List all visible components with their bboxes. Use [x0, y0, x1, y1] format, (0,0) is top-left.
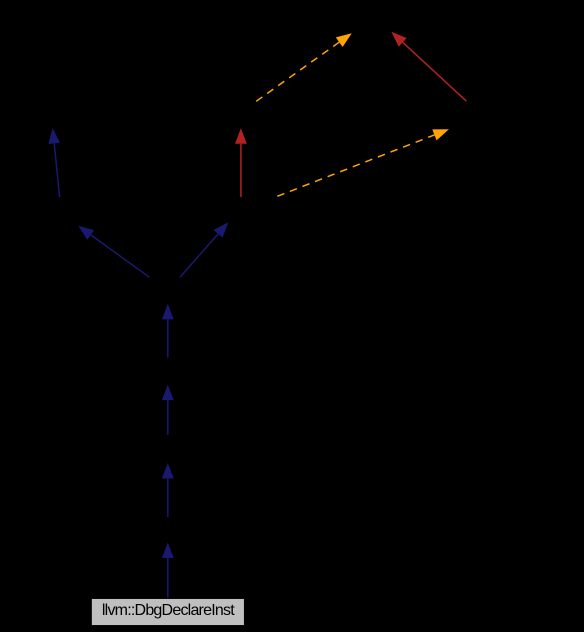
- wire: navy inheritance arrow, diagonal up-left (llvm::Instruction to llvm::User): [78, 226, 149, 277]
- wire: navy inheritance arrow, diagonal up-right (llvm::CallBase to llvm::OperandBundleUser): [180, 222, 228, 277]
- wire: navy inheritance arrow, vertical chain segment 1 (llvm::CallInst to llvm::CallBase): [162, 304, 174, 358]
- wire: orange dashed template-relation arrow, lower: [277, 129, 449, 196]
- wire: firebrick inheritance arrow, vertical (llvm::OperandBundleUser to template base): [235, 128, 247, 197]
- wire: firebrick inheritance arrow, diagonal up-left (right side): [391, 32, 466, 101]
- wire: navy inheritance arrow, upper left (llvm::User to llvm::Value): [48, 128, 60, 197]
- wire: navy inheritance arrow, vertical chain segment 2 (llvm::IntrinsicInst to llvm::CallInst): [162, 385, 174, 435]
- svg-text:llvm::DbgDeclareInst: llvm::DbgDeclareInst: [102, 602, 235, 619]
- wire: navy inheritance arrow, vertical chain segment 4 (llvm::DbgVariableIntrinsic to llvm::DbgInfoIntrinsic): [162, 543, 174, 598]
- wire: orange dashed template-relation arrow, upper: [256, 33, 352, 101]
- wire: navy inheritance arrow, vertical chain segment 3 (llvm::DbgInfoIntrinsic to llvm::IntrinsicInst): [162, 463, 174, 517]
- node llvm::DbgDeclareInst (grey filled box with black border and label): [91, 598, 244, 625]
